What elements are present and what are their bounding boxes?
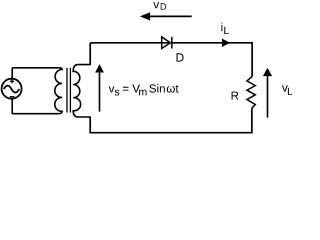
label D bbox=[177, 53, 184, 61]
resistor R bbox=[247, 77, 255, 109]
label R bbox=[232, 92, 239, 100]
plus sign bbox=[10, 79, 14, 83]
transformer core bbox=[67, 68, 70, 113]
transformer primary coil (3 bumps, bulge left) bbox=[55, 68, 62, 114]
transformer secondary coil (4 bumps, bulge right) bbox=[73, 65, 90, 117]
wire: resistor bottom, bottom wire, and left riser to secondary bbox=[90, 108, 252, 132]
arrowhead iL (on top wire, points right) bbox=[222, 39, 230, 48]
wire: primary loop bottom (circle bottom to primary coil) bbox=[12, 99, 59, 114]
wire: primary loop top (circle top to primary coil) bbox=[12, 68, 59, 79]
AC source (circle with sine, + and -) bbox=[2, 79, 22, 99]
label vs = Vm Sin wt bbox=[109, 86, 115, 92]
wire: top (secondary top to right corner) bbox=[90, 43, 252, 77]
label vD bbox=[153, 2, 159, 8]
arrow vs (up) bbox=[95, 64, 104, 112]
label iL bbox=[221, 23, 222, 32]
diode D bbox=[162, 37, 172, 49]
minus sign bbox=[10, 96, 15, 98]
label vL bbox=[282, 85, 288, 91]
arrow vD (points left) bbox=[140, 12, 192, 20]
arrow vL (up) bbox=[263, 68, 272, 118]
